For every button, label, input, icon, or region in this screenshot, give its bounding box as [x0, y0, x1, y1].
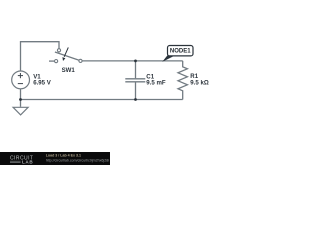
svg-text:LAB: LAB	[22, 159, 33, 164]
svg-text:SW1: SW1	[62, 67, 76, 74]
svg-text:9.5 kΩ: 9.5 kΩ	[190, 80, 209, 87]
svg-text:6.95 V: 6.95 V	[33, 80, 52, 87]
svg-text:http://circuitlab.com/circuit/: http://circuitlab.com/circuit/c9jm2hx6j2…	[46, 159, 110, 163]
svg-text:9.5 mF: 9.5 mF	[146, 80, 166, 87]
svg-text:NODE1: NODE1	[170, 49, 191, 55]
svg-text:Load 3 / Lab 4 Ex 3.1: Load 3 / Lab 4 Ex 3.1	[46, 154, 81, 158]
